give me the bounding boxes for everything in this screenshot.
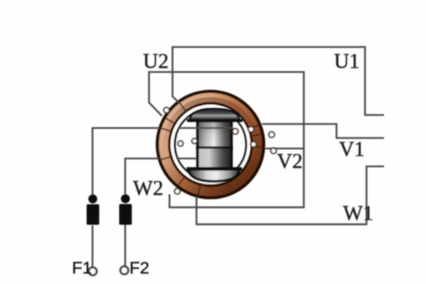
svg-text:F2: F2 — [130, 259, 150, 278]
wire F2 lead — [125, 159, 197, 267]
svg-text:V2: V2 — [277, 149, 303, 173]
wire U1 lead — [173, 47, 385, 115]
svg-text:F1: F1 — [72, 259, 92, 278]
svg-text:W2: W2 — [133, 176, 163, 200]
rotor bottom flange — [187, 167, 243, 181]
wire U2 star link — [149, 72, 304, 207]
wire V1 — [262, 124, 384, 138]
lamination radial lines — [160, 102, 264, 196]
svg-text:W1: W1 — [343, 201, 373, 225]
rotor top flange — [187, 109, 243, 122]
stator toroid core — [157, 91, 263, 197]
plug F1 — [87, 194, 100, 224]
plug F2 — [119, 194, 132, 225]
wire V2 — [266, 148, 304, 150]
terminal F1 — [89, 267, 97, 275]
wire F1 lead — [93, 128, 234, 267]
svg-text:U2: U2 — [143, 49, 169, 73]
winding loop terminals — [164, 107, 277, 194]
rotor body — [196, 121, 233, 169]
svg-text:U1: U1 — [334, 49, 360, 73]
svg-text:V1: V1 — [339, 137, 365, 161]
wire W1 — [197, 166, 385, 224]
terminal F2 — [120, 266, 128, 274]
inner stator bore circle — [175, 109, 246, 180]
